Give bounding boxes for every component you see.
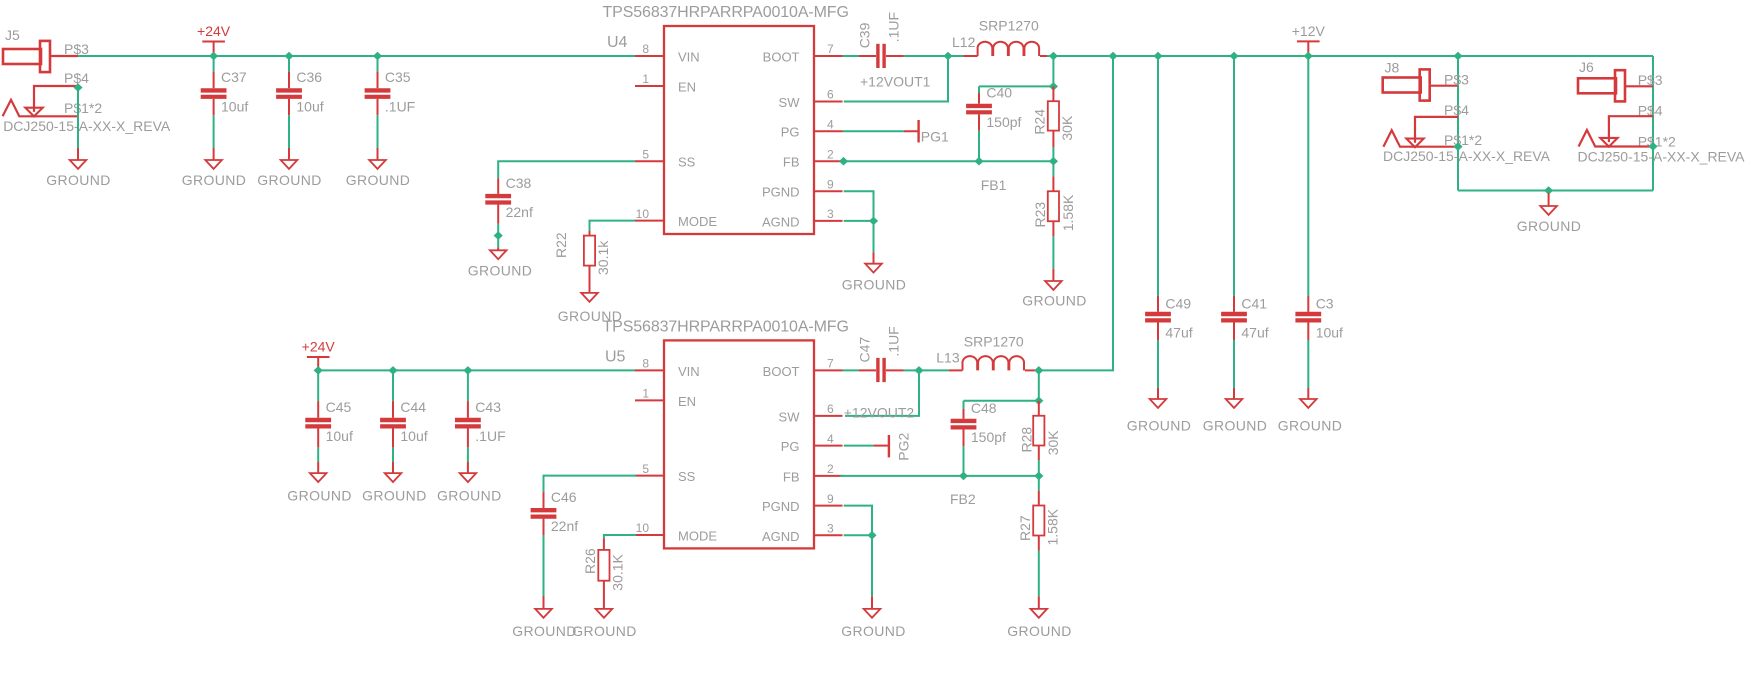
ground below C44	[392, 462, 394, 473]
net flag PG2	[888, 435, 890, 457]
wire feed-forward branch to C40 and R24	[1052, 56, 1054, 86]
svg-text:GROUND: GROUND	[1127, 417, 1192, 433]
svg-text:47uf: 47uf	[1241, 325, 1268, 341]
U4 pin 4 PG	[814, 130, 843, 132]
node C48/R28 top junction	[1034, 396, 1043, 405]
svg-text:P$3: P$3	[1638, 72, 1663, 88]
node rail junction C3	[1304, 52, 1313, 61]
svg-text:GROUND: GROUND	[512, 623, 577, 639]
capacitor C36 10uf	[276, 88, 302, 92]
svg-text:TPS56837HRPARRPA0010A-MFG: TPS56837HRPARRPA0010A-MFG	[603, 318, 849, 335]
J5 pin P$4 wire and switch arrow	[34, 86, 78, 112]
svg-text:J6: J6	[1579, 59, 1594, 75]
node rail junction C43	[463, 366, 472, 375]
svg-text:.1UF: .1UF	[886, 12, 902, 42]
svg-text:+24V: +24V	[197, 23, 231, 39]
svg-text:30K: 30K	[1045, 430, 1061, 456]
wire L13 output to rail riser	[1039, 56, 1113, 370]
svg-text:GROUND: GROUND	[287, 487, 352, 503]
svg-text:3: 3	[827, 207, 834, 221]
wire U5 BOOT to C47	[843, 369, 860, 371]
node rail junction C44	[388, 366, 397, 375]
U5 pin 7 BOOT	[814, 369, 843, 371]
J6 pin P$1*2 line and zigzag contact	[1579, 130, 1653, 147]
node J8 ground junction	[1453, 142, 1462, 151]
node riser top junction	[1108, 52, 1117, 61]
svg-text:SS: SS	[678, 469, 696, 484]
svg-text:+24V: +24V	[302, 339, 336, 355]
svg-text:1: 1	[642, 72, 649, 86]
capacitor C43 .1UF	[455, 418, 481, 422]
svg-text:C3: C3	[1316, 296, 1334, 312]
wire +12V output rail	[1053, 55, 1653, 57]
capacitor C39 .1UF bootstrap	[876, 44, 879, 68]
wire C49 column	[1157, 56, 1159, 296]
IC U5 TPS56837 buck converter	[664, 340, 814, 548]
J5 pin P$1*2 line and zigzag contact	[3, 100, 78, 117]
node R24/R23 divider junction	[1049, 157, 1058, 166]
svg-text:DCJ250-15-A-XX-X_REVA: DCJ250-15-A-XX-X_REVA	[1383, 148, 1551, 164]
svg-text:PGND: PGND	[762, 499, 800, 514]
wire U5 PG net to PG2 flag	[844, 445, 874, 447]
U4 pin 10 MODE	[635, 220, 664, 222]
svg-text:SRP1270: SRP1270	[964, 333, 1024, 349]
svg-text:TPS56837HRPARRPA0010A-MFG: TPS56837HRPARRPA0010A-MFG	[603, 4, 849, 21]
svg-text:C40: C40	[986, 85, 1012, 101]
node J5 ground net junction	[73, 83, 82, 92]
connector J6 (DCJ250 barrel jack)	[1578, 59, 1676, 150]
node rail junction C35	[373, 52, 382, 61]
ground below C41	[1233, 388, 1235, 399]
svg-text:GROUND: GROUND	[46, 172, 111, 188]
U4 pin 7 BOOT	[814, 55, 843, 57]
ground below C37	[213, 148, 215, 160]
U4 pin 5 SS	[635, 160, 664, 162]
svg-text:P$4: P$4	[1444, 102, 1469, 118]
svg-text:10: 10	[636, 521, 650, 535]
svg-text:1: 1	[642, 387, 649, 401]
wire C3 column	[1307, 56, 1309, 296]
wire U4 BOOT to C39	[843, 55, 860, 57]
svg-text:GROUND: GROUND	[1278, 417, 1343, 433]
U5 pin 1 EN	[635, 399, 664, 401]
node C40 bottom junction	[974, 157, 983, 166]
node rail junction C41	[1229, 52, 1238, 61]
svg-text:30.1K: 30.1K	[610, 553, 626, 590]
svg-text:1.58K: 1.58K	[1060, 194, 1076, 231]
node FB pin junction	[839, 157, 848, 166]
svg-text:L13: L13	[936, 350, 960, 366]
wire U5 SW net +12VOUT2	[845, 370, 919, 416]
svg-text:6: 6	[827, 88, 834, 102]
ground below C38	[497, 247, 499, 250]
svg-text:FB: FB	[783, 469, 800, 484]
svg-text:10uf: 10uf	[326, 428, 353, 444]
svg-text:C38: C38	[506, 175, 532, 191]
svg-text:L12: L12	[952, 34, 976, 50]
wire U5 PGND/AGND to ground	[844, 506, 872, 536]
svg-text:R23: R23	[1032, 202, 1048, 228]
svg-text:PG1: PG1	[921, 128, 949, 144]
svg-text:4: 4	[827, 432, 834, 446]
wire SW node to L12	[948, 55, 964, 57]
svg-text:GROUND: GROUND	[1517, 218, 1582, 234]
svg-text:SW: SW	[779, 95, 801, 110]
resistor R26 30.1K	[598, 550, 609, 581]
capacitor C48 150pf	[951, 419, 977, 423]
wire C37 column	[213, 56, 215, 72]
svg-text:FB: FB	[783, 155, 800, 170]
svg-text:MODE: MODE	[678, 214, 717, 229]
ground below C43	[467, 462, 469, 473]
capacitor C45 10uf	[305, 418, 331, 422]
wire C41 column	[1233, 56, 1235, 296]
node AGND junction	[869, 217, 878, 226]
capacitor C35 .1UF	[365, 88, 391, 92]
ground below U5 AGND	[871, 596, 873, 609]
svg-text:C36: C36	[296, 69, 322, 85]
U5 pin 3 AGND	[814, 534, 843, 536]
resistor R22 30.1k	[584, 236, 595, 266]
svg-text:9: 9	[827, 177, 834, 191]
J6 pin P$4 wire and switch arrow	[1609, 116, 1653, 142]
resistor R27 1.58K	[1038, 476, 1040, 491]
svg-text:C41: C41	[1241, 296, 1267, 312]
wire U5 SS net to C46	[544, 476, 637, 493]
svg-text:9: 9	[827, 492, 834, 506]
svg-text:GROUND: GROUND	[572, 623, 637, 639]
svg-text:MODE: MODE	[678, 529, 717, 544]
capacitor C38 22nf	[485, 194, 511, 198]
capacitor C41 47uf	[1221, 312, 1247, 316]
wire SW2 node to L13	[919, 369, 949, 371]
svg-text:SS: SS	[678, 155, 696, 170]
svg-text:GROUND: GROUND	[1007, 623, 1072, 639]
node J6 ground junction	[1648, 142, 1657, 151]
svg-text:U4: U4	[607, 34, 628, 51]
U5 pin 9 PGND	[814, 505, 843, 507]
svg-text:10uf: 10uf	[296, 98, 323, 114]
svg-text:C35: C35	[385, 69, 411, 85]
svg-text:PG: PG	[781, 439, 800, 454]
svg-text:VIN: VIN	[678, 50, 700, 65]
wire C36 column	[288, 56, 290, 72]
wire rail right end drop to J6	[1652, 56, 1654, 191]
wire U4 FB net	[840, 160, 1053, 162]
svg-text:DCJ250-15-A-XX-X_REVA: DCJ250-15-A-XX-X_REVA	[3, 118, 171, 134]
node rail junction C49	[1153, 52, 1162, 61]
ground below C3	[1307, 388, 1309, 399]
node +24V rail junction C37	[209, 52, 218, 61]
inductor L12 SRP1270	[978, 42, 1040, 56]
svg-text:8: 8	[642, 42, 649, 56]
svg-text:C37: C37	[221, 69, 247, 85]
node C40/R24 top junction	[1049, 82, 1058, 91]
svg-text:DCJ250-15-A-XX-X_REVA: DCJ250-15-A-XX-X_REVA	[1578, 149, 1746, 165]
wire +24V input rail (U5 section)	[318, 369, 636, 371]
node L12 output junction	[1049, 52, 1058, 61]
node jack ground junction	[1544, 186, 1553, 195]
U5 pin 8 VIN	[635, 369, 664, 371]
capacitor C46 22nf	[531, 508, 557, 512]
node SW2 junction at C47	[914, 366, 923, 375]
svg-text:P$1*2: P$1*2	[64, 100, 102, 116]
capacitor C49 47uf	[1145, 312, 1171, 316]
wire C35 column	[377, 56, 379, 72]
svg-text:EN: EN	[678, 394, 696, 409]
svg-text:.1UF: .1UF	[475, 428, 505, 444]
wire U4 MODE net to R22	[590, 221, 636, 231]
svg-text:R24: R24	[1032, 109, 1048, 135]
ground below C46	[543, 596, 545, 609]
svg-text:10uf: 10uf	[400, 428, 427, 444]
wire +24V input rail (net from J5 to U4 VIN)	[78, 55, 635, 57]
svg-text:GROUND: GROUND	[346, 172, 411, 188]
svg-text:C46: C46	[551, 489, 577, 505]
resistor R24 30K	[1052, 86, 1054, 101]
wire U4 PG net to PG1 flag	[843, 130, 904, 132]
wire C44 column	[392, 370, 394, 401]
svg-text:10: 10	[636, 207, 650, 221]
svg-text:10uf: 10uf	[1316, 325, 1343, 341]
connector J5 (DCJ250 barrel jack)	[3, 27, 102, 116]
svg-text:22nf: 22nf	[551, 518, 578, 534]
wire U5 FB net	[840, 475, 1039, 477]
node L13 output junction	[1034, 366, 1043, 375]
svg-text:PG: PG	[781, 125, 800, 140]
svg-text:C49: C49	[1165, 296, 1191, 312]
ground GND below J5	[77, 148, 79, 160]
svg-text:+12VOUT2: +12VOUT2	[844, 405, 915, 421]
node rail junction C36	[284, 52, 293, 61]
svg-text:2: 2	[827, 147, 834, 161]
wire J8 vertical drop	[1457, 56, 1459, 191]
svg-text:PG2: PG2	[895, 432, 911, 460]
U4 pin 6 SW	[814, 101, 843, 103]
capacitor C44 10uf	[380, 418, 406, 422]
svg-text:GROUND: GROUND	[257, 172, 322, 188]
svg-text:GROUND: GROUND	[842, 276, 907, 292]
svg-text:U5: U5	[605, 349, 626, 366]
resistor R23 1.58K	[1052, 161, 1054, 176]
svg-text:P$3: P$3	[1444, 71, 1469, 87]
svg-text:+12VOUT1: +12VOUT1	[860, 74, 931, 90]
U5 pin 4 PG	[814, 445, 843, 447]
svg-text:BOOT: BOOT	[763, 50, 800, 65]
svg-text:GROUND: GROUND	[362, 487, 427, 503]
svg-text:7: 7	[827, 42, 834, 56]
svg-text:4: 4	[827, 117, 834, 131]
svg-text:GROUND: GROUND	[1203, 417, 1268, 433]
ground below R22	[589, 266, 591, 293]
svg-text:47uf: 47uf	[1165, 325, 1192, 341]
J8 pin P$1*2 line and zigzag contact	[1383, 130, 1458, 147]
node C48 bottom junction	[959, 472, 968, 481]
node rail junction C45	[314, 366, 323, 375]
svg-text:R28: R28	[1018, 427, 1034, 453]
svg-text:30K: 30K	[1059, 115, 1075, 141]
capacitor C3 10uf	[1295, 312, 1321, 316]
svg-text:5: 5	[642, 147, 649, 161]
svg-text:8: 8	[642, 357, 649, 371]
svg-text:J5: J5	[5, 27, 20, 43]
svg-text:R27: R27	[1017, 515, 1033, 541]
svg-text:3: 3	[827, 522, 834, 536]
svg-text:FB2: FB2	[950, 491, 976, 507]
ground below J8/J6	[1548, 193, 1550, 206]
svg-text:C44: C44	[400, 399, 426, 415]
svg-text:PGND: PGND	[762, 185, 800, 200]
wire C45 column	[317, 370, 319, 401]
net flag PG1	[917, 120, 919, 143]
connector J8 (DCJ250 barrel jack)	[1383, 60, 1483, 149]
svg-text:+12V: +12V	[1292, 23, 1326, 39]
node C38 ground junction	[494, 231, 503, 240]
U4 pin 1 EN	[635, 85, 664, 87]
wire C43 column	[467, 370, 469, 401]
wire U4 SW net +12VOUT1	[844, 56, 948, 102]
U5 pin 5 SS	[635, 475, 664, 477]
svg-text:5: 5	[642, 462, 649, 476]
svg-text:22nf: 22nf	[506, 204, 533, 220]
svg-text:P$4: P$4	[64, 70, 89, 86]
svg-text:.1UF: .1UF	[886, 326, 902, 356]
inductor L13 SRP1270	[963, 356, 1025, 370]
wire feed-forward branch to C48 and R28	[1038, 370, 1040, 400]
ground below R23	[1052, 269, 1054, 281]
svg-text:P$3: P$3	[64, 41, 89, 57]
node AGND2 junction	[867, 531, 876, 540]
svg-text:VIN: VIN	[678, 364, 700, 379]
capacitor C47 .1UF bootstrap	[876, 358, 879, 382]
svg-text:150pf: 150pf	[986, 114, 1021, 130]
svg-text:.1UF: .1UF	[385, 98, 415, 114]
svg-text:AGND: AGND	[762, 214, 800, 229]
svg-text:SW: SW	[779, 409, 801, 424]
svg-text:GROUND: GROUND	[468, 262, 533, 278]
wire J5 to ground	[77, 88, 79, 149]
svg-text:C39: C39	[857, 22, 873, 48]
svg-text:R26: R26	[582, 548, 598, 574]
U4 pin 2 FB	[814, 160, 843, 162]
svg-text:GROUND: GROUND	[841, 623, 906, 639]
svg-text:7: 7	[827, 357, 834, 371]
svg-text:FB1: FB1	[981, 177, 1007, 193]
U4 pin 3 AGND	[814, 220, 843, 222]
U5 pin 2 FB	[814, 475, 843, 477]
svg-text:C48: C48	[971, 400, 997, 416]
ground below C45	[317, 462, 319, 473]
svg-text:C45: C45	[326, 399, 352, 415]
node SW junction at C39	[943, 52, 952, 61]
ground below R27	[1038, 596, 1040, 609]
U4 pin 8 VIN	[635, 55, 664, 57]
svg-text:1.58K: 1.58K	[1045, 508, 1061, 545]
wire U5 MODE net to R26	[604, 535, 636, 538]
capacitor C40 150pf	[966, 104, 992, 108]
capacitor C37 10uf	[201, 88, 227, 92]
svg-text:150pf: 150pf	[971, 429, 1006, 445]
svg-text:GROUND: GROUND	[182, 172, 247, 188]
wire U4 PGND/AGND to ground	[844, 191, 874, 221]
svg-text:EN: EN	[678, 80, 696, 95]
svg-text:SRP1270: SRP1270	[979, 18, 1039, 34]
svg-text:C43: C43	[475, 399, 501, 415]
svg-text:C47: C47	[857, 337, 873, 363]
node rail junction J8	[1453, 52, 1462, 61]
ground below C35	[377, 148, 379, 160]
IC U4 TPS56837 buck converter	[664, 26, 814, 234]
ground below C36	[288, 148, 290, 160]
svg-text:AGND: AGND	[762, 529, 800, 544]
svg-text:R22: R22	[553, 232, 569, 258]
svg-text:BOOT: BOOT	[763, 364, 800, 379]
ground below U4 AGND	[873, 252, 875, 263]
node R28/R27 divider junction	[1034, 472, 1043, 481]
svg-text:2: 2	[827, 462, 834, 476]
ground below R26	[603, 581, 605, 609]
ground below C49	[1157, 388, 1159, 399]
svg-text:10uf: 10uf	[221, 98, 248, 114]
wire jack ground rail	[1458, 190, 1653, 192]
svg-text:6: 6	[827, 402, 834, 416]
U4 pin 9 PGND	[814, 190, 843, 192]
svg-text:GROUND: GROUND	[1022, 293, 1087, 309]
wire U4 SS net to C38	[498, 161, 635, 178]
U5 pin 6 SW	[814, 415, 843, 417]
svg-text:30.1k: 30.1k	[595, 240, 611, 275]
svg-text:J8: J8	[1385, 60, 1400, 76]
svg-text:GROUND: GROUND	[437, 487, 502, 503]
U5 pin 10 MODE	[635, 534, 664, 536]
resistor R28 30K	[1038, 401, 1040, 416]
J8 pin P$4 wire and switch arrow	[1415, 117, 1458, 143]
